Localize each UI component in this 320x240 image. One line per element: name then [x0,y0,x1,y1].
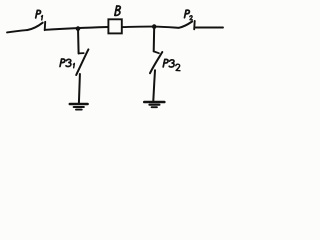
node junction dot left [76,26,81,31]
switch P1 blade [27,23,43,30]
wire box B to P2 [123,27,179,28]
wire right branch lower vertical [153,70,155,101]
wire left branch upper vertical [77,29,80,54]
ground right [144,102,164,107]
switch P1 fixed contact tick [44,22,47,30]
switch RZ1 fixed contact tick [79,52,84,54]
wire P1 to box B [46,27,108,30]
wire right lead [196,27,224,29]
switch RZ1 blade [76,49,88,75]
label RZ2 [163,59,180,70]
switch RZ2 fixed contact tick [154,51,159,53]
ground left [70,104,88,110]
breaker B box [108,19,121,33]
node junction dot right [152,24,157,29]
label P1 [36,10,43,20]
wire left lead [7,30,27,32]
switch P2 fixed contact tick [193,21,196,29]
switch P2 blade [179,22,192,28]
wire left branch lower vertical [79,74,80,103]
wire right branch upper vertical [153,27,156,52]
switch RZ2 blade [150,52,162,73]
label RZ1 [60,59,74,68]
label P2 [185,10,193,20]
label B [115,6,120,15]
